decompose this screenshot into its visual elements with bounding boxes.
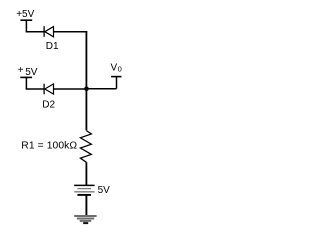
- diode D1 triangle: [45, 27, 54, 37]
- wire resistor to battery: [85, 162, 87, 185]
- wire battery to ground: [85, 196, 87, 216]
- svg-text:D2: D2: [42, 99, 55, 110]
- diode D1 cathode bar: [43, 26, 45, 37]
- junction node dot: [84, 86, 89, 91]
- battery plate 1 long: [74, 184, 94, 186]
- vertical bus wire: [85, 31, 87, 130]
- ground bar 1: [74, 215, 96, 217]
- battery plate 3 long: [74, 191, 94, 193]
- output terminal stem: [116, 77, 118, 89]
- wire junction to output terminal: [87, 88, 117, 90]
- svg-text:+5V: +5V: [16, 9, 34, 20]
- battery plate 4 short: [77, 194, 91, 196]
- svg-text:V0: V0: [111, 63, 122, 74]
- diode D2 cathode bar: [43, 84, 45, 95]
- ground bar 4: [83, 222, 88, 224]
- battery plate 2 short: [77, 188, 91, 190]
- wire power1 to D1 anode: [26, 31, 44, 33]
- power symbol 1 bar: [20, 19, 32, 21]
- wire D1 to bus: [54, 31, 88, 33]
- svg-text:+: +: [18, 65, 24, 76]
- power symbol 2 stem: [25, 77, 27, 89]
- resistor R1 zigzag: [80, 131, 91, 163]
- diode D2 triangle: [45, 84, 54, 94]
- power symbol 1 stem: [25, 20, 27, 32]
- svg-text:5V: 5V: [98, 185, 111, 196]
- ground bar 2: [77, 217, 94, 219]
- wire power2 to D2 anode: [26, 88, 44, 90]
- output terminal bar: [111, 76, 121, 78]
- power symbol 2 bar: [20, 76, 32, 78]
- svg-text:5V: 5V: [25, 67, 38, 78]
- svg-text:D1: D1: [46, 41, 59, 52]
- wire D2 to junction: [54, 88, 87, 90]
- ground bar 3: [80, 220, 92, 222]
- svg-text:R1 = 100kΩ: R1 = 100kΩ: [21, 140, 77, 151]
